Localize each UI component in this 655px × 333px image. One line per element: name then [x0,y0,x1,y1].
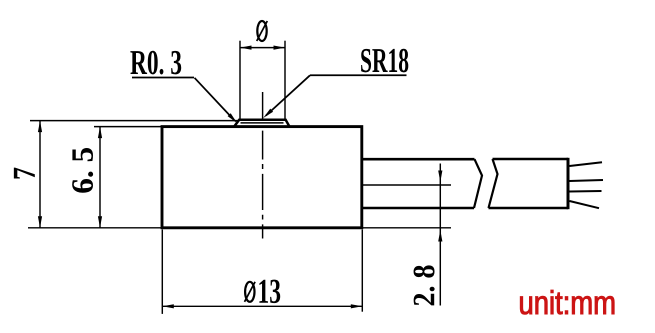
body outline (13mm x 6.5mm sensor body) [162,127,362,228]
arrow 6.5 top [98,127,102,139]
vertical centerline [262,92,264,239]
label 7 [14,168,35,179]
wire 1 [570,162,603,166]
diameter dim extension line left [239,41,241,119]
arrow 2.8 top (points down to cable axis) [438,171,442,183]
wire 2 [570,180,604,181]
cable break curve left [474,159,482,208]
label 2.8 [414,265,435,305]
leader R0.3 diagonal [195,78,236,121]
diameter dim extension line right [284,41,286,119]
wire 3 [570,190,602,193]
arrow diameter right [274,46,286,50]
Ø13 extension line right [361,230,363,312]
Ø13 dimension line [162,305,362,307]
cable centerline extension [363,184,451,186]
extension line at body top left (6.5mm level) [94,126,161,128]
arrow 6.5 bottom [98,216,102,228]
dimension line 7 [39,121,41,228]
cable break curve right [489,159,498,208]
arrow Ø13 left [162,304,174,308]
leader R0.3 underline [132,77,194,79]
button bump (SR18 spherical button) [234,120,289,127]
leader SR18 diagonal [266,75,310,115]
dimension line 6.5 [99,127,101,228]
label diameter symbol [257,21,268,41]
cable segment 2 top line [493,158,569,161]
diameter dimension line [240,47,285,49]
unit note [520,290,614,314]
leader SR18 underline [310,74,407,76]
arrow diameter left [240,46,252,50]
cable segment 1 top line [362,158,475,161]
extension line at bump top (7mm level) [30,120,238,122]
arrow Ø13 right [351,304,363,308]
arrow 7 bottom [38,216,42,228]
label SR18 [361,49,408,73]
2.8 dimension line [439,164,441,306]
label R0.3 [130,51,181,75]
cable end cap [567,158,570,209]
wire 4 [570,201,600,208]
extension line at body bottom right [363,227,451,229]
arrow 2.8 bottom (points up to body base) [438,230,442,242]
cable segment 2 bottom line [489,207,569,210]
label Ø13 [245,280,281,304]
arrow 7 top [38,121,42,133]
Ø13 extension line left [161,230,163,314]
leader SR18 arrowhead [263,109,273,118]
bump inner edge line [241,122,284,124]
cable segment 1 bottom line [362,207,474,210]
extension line at body bottom left [28,227,161,229]
label 6.5 [72,148,93,193]
leader R0.3 arrowhead [228,113,237,123]
